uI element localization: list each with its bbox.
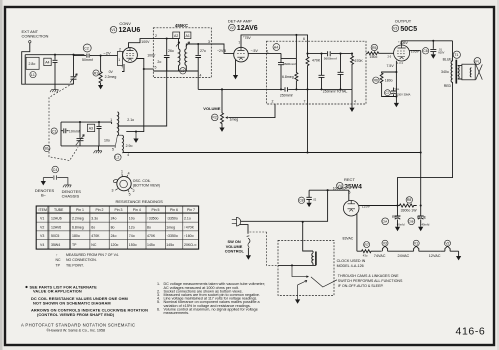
svg-text:NOT SHOWN ON SCHEMATIC DIAGRAM: NOT SHOWN ON SCHEMATIC DIAGRAM [33,300,111,305]
cap A to rail [319,54,325,90]
wire loop left edge [24,55,26,84]
svg-text:74VAC: 74VAC [374,254,386,258]
svg-text:↑3350o: ↑3350o [147,217,159,221]
svg-text:12AV6: 12AV6 [51,225,61,229]
svg-text:12AV6: 12AV6 [237,25,258,32]
svg-text:R2: R2 [212,116,217,120]
B+ vertical [420,51,422,206]
svg-text:↑160o: ↑160o [184,234,194,238]
svg-text:L3: L3 [181,69,185,73]
svg-text:V2: V2 [445,242,449,246]
svg-text:MEASURED FROM PIN 7 OF V4.: MEASURED FROM PIN 7 OF V4. [66,253,119,257]
svg-text:V2: V2 [40,225,44,229]
svg-text:100VAC: 100VAC [333,186,346,190]
B- arrow on feedback line [135,132,137,139]
wire IF pin4 down to volume line [197,71,199,89]
svg-text:40mfd: 40mfd [397,223,405,227]
svg-text:THROUGH CAMS & LINKAGES ONE: THROUGH CAMS & LINKAGES ONE [338,274,399,278]
svg-text:26o: 26o [168,49,174,53]
svg-text:RESISTANCE READINGS: RESISTANCE READINGS [116,199,164,204]
svg-text:150o: 150o [129,243,137,247]
svg-text:(BOTTOM VIEW): (BOTTOM VIEW) [133,184,160,188]
svg-text:R6: R6 [374,79,379,83]
svg-text:C9A: C9A [382,220,387,224]
wire grid jog [211,44,234,53]
resistance readings table [36,206,198,249]
wire V1 screen to osc feedback vertical [126,59,144,132]
svg-text:RED: RED [392,215,400,219]
svg-text:TIE POINT.: TIE POINT. [66,263,84,267]
wire line to clock motor [303,222,313,251]
part A1 box [184,32,191,39]
svg-text:IF ON-OFF-AUTO & SLEEP.: IF ON-OFF-AUTO & SLEEP. [338,284,384,288]
svg-text:416-6: 416-6 [456,326,486,338]
svg-text:.02: .02 [313,197,317,201]
heater V3 [382,240,388,246]
svg-text:24VAC: 24VAC [398,254,410,258]
svg-text:105V: 105V [411,49,420,53]
svg-text:12o: 12o [129,225,135,229]
clock internal rail [278,264,316,266]
wire osc bottom rail [61,145,115,147]
C4 legend denotes B- / chassis [35,166,81,198]
svg-text:1: 1 [110,118,112,122]
svg-text:7.5V: 7.5V [387,64,395,68]
svg-text:OUTPUT: OUTPUT [395,19,412,24]
svg-text:83VAC: 83VAC [343,236,354,240]
T1 primary [451,41,452,83]
B- arrow under volume [219,128,224,132]
svg-text:6o: 6o [91,225,95,229]
tube V4 circle [343,200,359,216]
wire V2 to detector pin1 [248,52,281,54]
wire V3 plate to T1 [402,41,453,45]
part A4 box (antenna) [44,58,51,65]
capacitor C9B 40mfd BLUE [408,218,415,225]
svg-text:CLOCK USED IN: CLOCK USED IN [337,259,366,263]
clock motor coil [312,251,313,265]
svg-text:3.3o: 3.3o [91,217,98,221]
coil L1 ref [30,72,36,78]
svg-text:7: 7 [238,41,240,45]
capacitor C6 .01 600V [422,48,428,54]
svg-text:V4: V4 [40,243,44,247]
wire to rect plate [309,190,349,200]
wire grid line to V1 [74,55,118,57]
svg-text:7: 7 [121,66,123,70]
svg-text:5: 5 [129,192,131,196]
svg-text:50mmf: 50mmf [82,58,93,62]
IF secondary winding [185,49,187,66]
svg-text:100V: 100V [141,40,150,44]
svg-text:3300o 1W: 3300o 1W [401,208,418,212]
svg-text:L1: L1 [31,73,35,77]
svg-text:470K: 470K [91,234,100,238]
svg-text:40mfd: 40mfd [422,223,430,227]
capacitor 5600mmf [278,59,284,90]
svg-text:250mmf: 250mmf [280,94,293,98]
svg-text:2.8o: 2.8o [29,62,36,66]
svg-text:Pin 5: Pin 5 [152,208,160,212]
clock switch blade [311,277,337,287]
svg-text:145o: 145o [166,243,174,247]
svg-text:BLUE: BLUE [417,215,427,219]
svg-text:470K: 470K [312,59,321,63]
svg-text:5600mmf: 5600mmf [324,57,337,61]
svg-text:−2V: −2V [103,50,111,55]
svg-text:12AU6: 12AU6 [119,27,141,34]
svg-text:B1: B1 [45,147,49,151]
resistor R6 180o [380,72,396,97]
on-off switch on volume control [225,225,278,266]
svg-text:Pin 3: Pin 3 [115,208,123,212]
svg-text:50C5: 50C5 [400,26,417,33]
rectifier V4 35W4 and power [232,177,430,231]
svg-text:C1: C1 [52,129,57,133]
svg-text:L2: L2 [115,156,119,160]
switch sw1 mech dashes [250,231,267,233]
svg-text:−.5V: −.5V [251,49,259,53]
wire IF primary cap tap to oscillator [118,58,167,126]
wire heater end to B- [458,251,460,256]
svg-text:50C5: 50C5 [51,234,59,238]
svg-text:2: 2 [155,34,157,38]
wire rect cathode to filter [359,205,398,207]
tube V3 circle [394,45,410,61]
svg-text:↑: ↑ [56,253,58,257]
heater V2 [445,240,451,246]
svg-text:180o: 180o [385,78,393,82]
svg-text:C6: C6 [423,49,428,53]
osc coil bottom view symbol [112,170,160,197]
svg-text:(CONTROL VIEWED FROM SHAFT END: (CONTROL VIEWED FROM SHAFT END) [37,312,115,317]
svg-text:2o: 2o [157,60,161,64]
svg-text:0V: 0V [109,70,114,74]
part A4 circle ref [273,44,280,51]
ext ant terminal [29,41,31,43]
switch blade [247,236,250,248]
svg-text:↑3350o: ↑3350o [166,217,178,221]
svg-text:OSC. COIL: OSC. COIL [133,179,151,183]
svg-text:↑470K: ↑470K [184,225,195,229]
wire V2 plate to 75V line [241,35,308,48]
osc fixed cap [97,122,102,146]
svg-text:NO CONNECTION.: NO CONNECTION. [66,258,97,262]
svg-text:2: 2 [119,48,121,52]
svg-text:YEL: YEL [394,87,399,91]
tube V2 12AV6 det-af amp [211,19,308,80]
svg-text:B−: B− [41,193,47,198]
wire V2 plate branch to detector node [295,35,297,59]
svg-text:10o: 10o [104,139,110,143]
oscillator coil L2 [118,112,119,136]
svg-text:8o: 8o [147,225,151,229]
svg-text:1: 1 [121,170,123,174]
svg-text:250mmf TOTAL: 250mmf TOTAL [323,90,348,94]
svg-text:180o: 180o [72,234,80,238]
cap B to rail [338,54,344,90]
resistor 670K [351,54,354,90]
svg-text:CONTROL: CONTROL [225,248,245,253]
svg-text:35W4: 35W4 [51,243,60,247]
svg-text:2.9o: 2.9o [126,144,133,148]
svg-text:NC: NC [91,243,97,247]
heater string [343,214,462,261]
bottom-right numbered notes [157,282,265,315]
chassis under osc [98,146,100,151]
svg-text:CHASSIS: CHASSIS [62,193,80,198]
tuning slug arrows [176,42,180,47]
svg-text:A2: A2 [174,34,178,38]
svg-text:120V: 120V [362,204,371,208]
wire rect filament drop [356,214,358,251]
svg-text:1 3 4: 1 3 4 [397,61,403,65]
output transformer T1 and speaker [398,41,483,206]
part A3 box [87,124,94,131]
oscillator section [44,84,421,161]
svg-text:35W4: 35W4 [344,183,362,190]
svg-text:C8: C8 [299,199,304,203]
detector couplate assembly [198,37,366,153]
speaker SP1 [474,58,481,65]
coil L2 ref [115,154,122,161]
svg-text:6.8meg: 6.8meg [282,75,294,79]
svg-text:V3: V3 [383,242,387,246]
capacitor C3 antenna trimmer [53,55,58,84]
svg-text:470K: 470K [147,234,156,238]
wire rail down through pin7 to B+ bus [307,89,309,152]
tuning gang capacitor B1 ant section [71,55,77,84]
svg-text:1.: 1. [157,282,160,286]
wire osc top rail [61,122,112,124]
svg-text:V1: V1 [111,28,115,32]
svg-text:CONV: CONV [119,21,131,26]
svg-text:8o: 8o [111,225,115,229]
capacitor C2 50mmf [83,44,91,52]
wire rail end to pin4 B- [351,89,353,107]
dashed gang linkage [49,84,78,161]
wire T1 primary bottom to rect cathode node [398,83,453,206]
clock switch contact arm [292,265,309,277]
detector rail with 250mmf cap [198,87,352,91]
svg-text:ITEM: ITEM [39,208,47,212]
svg-text:measurements.: measurements. [164,311,190,315]
resistor R1 2.2meg [93,70,99,76]
capacitor C8 line bypass [298,197,304,203]
svg-text:2.1o: 2.1o [127,118,134,122]
wire pin1 into box [281,53,296,58]
chassis under antenna [54,84,56,90]
svg-text:2.2meg: 2.2meg [72,217,84,221]
coupling line with 5600mmf cap [308,51,353,56]
svg-text:145o: 145o [147,243,155,247]
T1 core [455,60,457,84]
svg-text:2: 2 [133,189,135,193]
svg-text:V1: V1 [40,217,44,221]
svg-text:24o: 24o [111,234,117,238]
resistor R5 grid stopper [371,44,377,50]
svg-text:©Howard W. Sams & Co., Inc. 19: ©Howard W. Sams & Co., Inc. 1958 [46,329,105,333]
svg-text:A1: A1 [186,34,190,38]
svg-text:R5: R5 [372,46,377,50]
svg-text:C7: C7 [385,91,390,95]
wire IF pin5 exit [144,68,154,70]
IF primary cap [164,39,170,72]
AC line plug [232,217,241,226]
svg-text:Pin 7: Pin 7 [187,208,195,212]
svg-text:RECT: RECT [344,177,355,182]
IF bottom rail [153,66,198,72]
svg-text:V3: V3 [40,234,44,238]
svg-text:R8: R8 [407,198,412,202]
wire ext ant to loop [22,43,30,84]
svg-text:MODEL 4-A-126: MODEL 4-A-126 [337,264,364,268]
capacitor C9A 40mfd RED [382,218,389,225]
svg-text:5.: 5. [157,300,160,304]
svg-text:3: 3 [208,40,210,44]
svg-text:2: 2 [272,100,274,104]
svg-text:A3: A3 [89,126,93,130]
svg-text:Pin 1: Pin 1 [76,208,84,212]
loop antenna L1 box 2.8o [26,57,39,69]
capacitor C7 [385,90,391,96]
svg-text:CONNECTION: CONNECTION [22,34,49,39]
svg-text:600V: 600V [438,50,444,54]
svg-text:340o: 340o [441,70,449,74]
volume control R2 [203,88,275,132]
svg-text:Pin 6: Pin 6 [170,208,178,212]
svg-text:VOLUME: VOLUME [203,106,220,111]
wire wiper to detector pin2 [229,104,275,118]
T1 secondary [458,65,459,79]
svg-text:12AU6: 12AU6 [51,217,62,221]
svg-text:4: 4 [354,100,356,104]
svg-text:BLUE: BLUE [443,57,453,61]
coil L3 ref [180,68,186,74]
svg-text:5: 5 [349,191,351,195]
svg-text:C9B: C9B [408,220,413,224]
svg-text:R1: R1 [94,71,99,75]
svg-text:4: 4 [128,172,130,176]
V2 cathode B- [235,60,237,75]
IF secondary cap [195,44,201,71]
svg-text:C2: C2 [84,46,89,50]
wire antenna bottom rail [25,83,73,85]
svg-text:5: 5 [155,66,157,70]
IF primary winding [179,49,181,66]
svg-text:455KC: 455KC [175,23,188,28]
svg-text:TUBE: TUBE [54,208,64,212]
svg-text:DET-AF AMP: DET-AF AMP [228,19,252,24]
B- arrow under R1 [98,85,103,89]
heater V1 [413,240,419,246]
svg-text:V2: V2 [230,26,234,30]
svg-text:10o: 10o [129,217,135,221]
svg-text:R7: R7 [364,243,369,247]
svg-text:Pin 2: Pin 2 [96,208,104,212]
svg-text:NC: NC [56,258,62,262]
svg-text:A PHOTOFACT STANDARD NOTATION: A PHOTOFACT STANDARD NOTATION SCHEMATIC [21,322,135,327]
clock second arm to B- [298,280,307,299]
svg-text:27o: 27o [200,49,206,53]
svg-text:670K: 670K [355,59,364,63]
resistor R8 3300o 1W [406,197,412,203]
wire V3 screen to B+ vertical [410,50,421,52]
V1 grid terminal box [118,51,123,65]
svg-text:1: 1 [267,50,269,54]
svg-text:74o: 74o [129,234,135,238]
clock assembly [278,222,403,304]
page edge shading [0,0,3,350]
volume wiper arm [226,117,229,119]
svg-text:2-5: 2-5 [388,55,392,59]
svg-text:6.8meg: 6.8meg [72,225,84,229]
wire line hot [240,190,327,221]
svg-text:VALUE OR APPLICATION: VALUE OR APPLICATION [33,289,82,294]
wire osc left edge [60,122,62,146]
svg-text:3: 3 [112,189,114,193]
wire V1 plate to IF [129,39,179,49]
svg-text:1meg: 1meg [230,118,239,122]
wire L2 bottom to B+ bus [123,152,125,154]
svg-text:T1: T1 [454,53,458,57]
svg-text:7: 7 [304,100,306,104]
svg-text:4: 4 [127,153,129,157]
wire IF secondary to V2 grid [186,44,210,49]
svg-text:V3: V3 [393,27,397,31]
svg-text:2.1o: 2.1o [184,217,191,221]
svg-text:150o: 150o [370,55,378,59]
IF transformer 455KC assembly [118,23,212,126]
svg-text:20KΩ-∞: 20KΩ-∞ [184,243,197,247]
svg-text:10mmf: 10mmf [69,129,80,133]
B+ bus [124,152,421,154]
wire V1 pin7 stub [122,64,124,72]
part A2 box [173,32,180,39]
resistor 6.8meg [295,59,298,90]
svg-text:RED: RED [444,84,452,88]
resistor 470K (V2 plate load) [306,41,309,89]
svg-text:TP: TP [56,263,61,267]
svg-text:6.: 6. [157,307,160,311]
svg-text:↑3350o: ↑3350o [166,234,178,238]
svg-text:V1: V1 [414,242,418,246]
wire antenna top rail [25,54,84,56]
capacitor C1 10mmf [51,128,57,134]
svg-text:2.2meg: 2.2meg [105,75,117,79]
osc padder trimmer cap [77,122,84,146]
svg-text:A4: A4 [45,60,49,64]
svg-text:C4: C4 [53,168,58,172]
wire plug neutral to switch [240,225,248,234]
svg-text:A4: A4 [274,45,278,49]
resistor R7 43o [364,242,370,248]
mechanical linkage to clock [267,232,278,265]
V3 cathode network R6 C7 [395,61,397,103]
svg-text:5: 5 [112,148,114,152]
svg-text:120o: 120o [111,243,119,247]
svg-text:5600mmf: 5600mmf [283,62,296,66]
svg-text:SWITCH PERFORMS ALL FUNCTIONS: SWITCH PERFORMS ALL FUNCTIONS [338,279,403,283]
svg-text:Pin 4: Pin 4 [133,208,141,212]
svg-text:150V 30MA: 150V 30MA [397,92,411,96]
svg-text:4: 4 [200,73,202,77]
tuning gang B1 ref [44,145,50,151]
svg-text:43o: 43o [363,254,368,258]
svg-text:24o: 24o [111,217,117,221]
svg-text:−2V 5: −2V 5 [217,49,226,53]
svg-text:1meg: 1meg [166,225,175,229]
